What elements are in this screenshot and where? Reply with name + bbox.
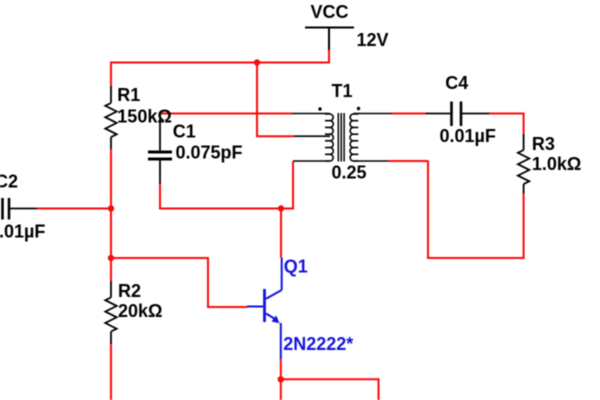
phase dot right bbox=[357, 107, 360, 110]
svg-text:R2: R2 bbox=[118, 281, 141, 301]
svg-text:150kΩ: 150kΩ bbox=[117, 107, 171, 127]
wire C1 top to T1 primary bbox=[160, 113, 292, 115]
wire R1 top bbox=[110, 62, 112, 87]
wire R1 bottom bbox=[110, 149, 112, 210]
svg-text:20kΩ: 20kΩ bbox=[118, 301, 162, 321]
svg-text:0.075pF: 0.075pF bbox=[176, 143, 243, 163]
wire emitter continue down bbox=[280, 379, 282, 400]
resistor R2 bbox=[105, 281, 116, 344]
wire mid-tap feed bbox=[257, 63, 294, 137]
svg-text:Q1: Q1 bbox=[284, 257, 308, 277]
wire VCC rail bbox=[110, 62, 330, 64]
svg-text:2N2222*: 2N2222* bbox=[283, 334, 353, 354]
transistor Q1 bbox=[247, 258, 282, 360]
wire T1 secondary top bbox=[392, 113, 427, 115]
junction dot divider upper bbox=[108, 205, 114, 211]
wire VCC stem bbox=[328, 50, 330, 64]
wire divider middle bbox=[110, 209, 112, 259]
wire base route bbox=[111, 258, 247, 307]
junction dot collector node bbox=[278, 205, 284, 211]
power symbol VCC bbox=[305, 28, 354, 51]
capacitor C4 bbox=[426, 102, 489, 127]
svg-text:1.0kΩ: 1.0kΩ bbox=[532, 154, 581, 174]
resistor R3 bbox=[518, 134, 529, 194]
svg-text:T1: T1 bbox=[332, 81, 353, 101]
svg-text:R3: R3 bbox=[532, 134, 555, 154]
transformer T1 bbox=[292, 113, 392, 162]
resistor R1 bbox=[105, 86, 116, 149]
svg-text:0.25: 0.25 bbox=[332, 163, 367, 183]
wire R2 top bbox=[110, 258, 112, 281]
junction dot rail bbox=[254, 59, 260, 65]
wire T1 secondary bottom bbox=[388, 160, 428, 162]
wire C4 to R3 bbox=[489, 114, 524, 135]
wire emitter branch right bbox=[281, 379, 379, 400]
wire C2 to divider bbox=[37, 208, 111, 210]
junction dot base branch bbox=[108, 255, 114, 261]
junction dot emitter bbox=[278, 376, 284, 382]
svg-text:C4: C4 bbox=[445, 73, 468, 93]
svg-text:12V: 12V bbox=[357, 30, 389, 50]
svg-text:R1: R1 bbox=[117, 85, 140, 105]
svg-text:0.01µF: 0.01µF bbox=[440, 126, 496, 146]
svg-text:C1: C1 bbox=[173, 122, 196, 142]
svg-text:VCC: VCC bbox=[311, 2, 349, 22]
wire C1 bottom to collector node bbox=[160, 162, 293, 209]
wire R2 bottom bbox=[110, 344, 112, 400]
capacitor C2 bbox=[3, 198, 38, 220]
svg-text:C2: C2 bbox=[0, 172, 18, 192]
svg-text:0.01µF: 0.01µF bbox=[0, 222, 45, 242]
wire emitter down bbox=[280, 359, 282, 379]
wire output loop bbox=[428, 161, 524, 259]
capacitor C1 bbox=[148, 114, 172, 185]
phase dot left bbox=[318, 107, 321, 110]
wire collector riser bbox=[280, 209, 282, 258]
transistor Q1 emitter arrow bbox=[272, 315, 280, 323]
